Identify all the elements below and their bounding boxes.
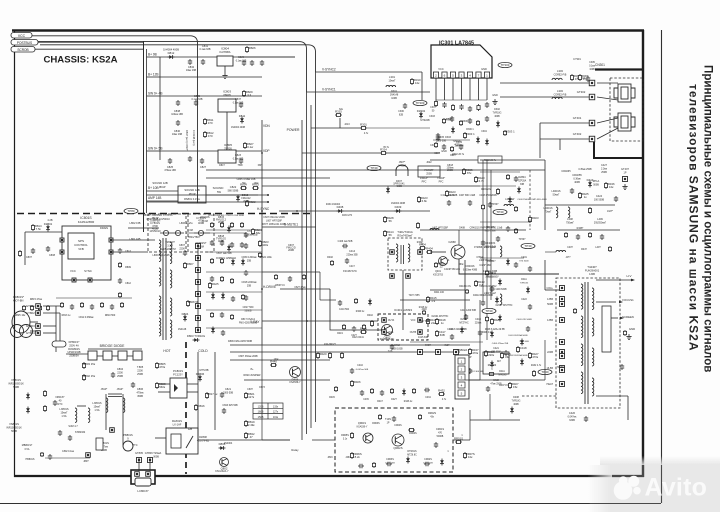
diode: [517, 187, 521, 194]
svg-text:LX801S: LX801S: [92, 401, 102, 405]
svg-text:C424P 580 2кB: C424P 580 2кB: [444, 269, 460, 271]
wire to GT302: [500, 96, 589, 98]
wire rail AMP14B: [147, 200, 179, 202]
resistor: [496, 188, 499, 195]
svg-text:R302 26.7к: R302 26.7к: [484, 159, 497, 162]
svg-text:S70M33К: S70M33К: [75, 431, 86, 434]
voltage table: [253, 403, 283, 419]
wire rail 3: [480, 185, 516, 187]
svg-text:1N4148: 1N4148: [178, 328, 187, 331]
box R302: [478, 156, 502, 163]
IC IC805: [218, 150, 236, 163]
svg-text:C404 470мк 25B: C404 470мк 25B: [492, 343, 509, 345]
connector pin: [109, 250, 113, 254]
svg-text:J819P JUMPER CY801S 4700 400B: J819P JUMPER CY801S 4700 400B: [208, 215, 244, 217]
diode: [526, 287, 530, 294]
svg-text:FO801S 1258/FA0: FO801S 1258/FA0: [216, 257, 236, 260]
svg-text:R30?: R30?: [450, 155, 456, 157]
wire bridge top bus: [88, 348, 142, 350]
svg-text:2.49к: 2.49к: [248, 423, 255, 427]
capacitor: [442, 144, 446, 150]
wire IC301 pin: [478, 78, 480, 100]
resistor R301: [360, 126, 367, 129]
svg-text:MTZ?HC: MTZ?HC: [459, 322, 469, 324]
svg-text:135B: 135B: [547, 298, 553, 301]
resistor R310: [410, 78, 413, 85]
svg-text:IN6?: IN6?: [445, 345, 451, 347]
svg-text:BRIDGE DIODE: BRIDGE DIODE: [100, 344, 125, 348]
svg-text:C412: C412: [394, 344, 400, 347]
wire: [43, 305, 60, 307]
screen arrow: [620, 317, 624, 320]
wire to GT402: [540, 138, 589, 140]
inductor: [592, 348, 594, 366]
capacitor: [244, 232, 248, 238]
svg-text:220мк 35B: 220мк 35B: [346, 254, 358, 256]
svg-text:0.1мк 63B: 0.1мк 63B: [200, 48, 211, 51]
svg-text:R809: R809: [125, 266, 131, 269]
svg-text:C?301: C?301: [573, 57, 581, 61]
capacitor: [131, 382, 135, 388]
svg-text:L802 F/B: L802 F/B: [130, 221, 141, 225]
schematic frame top border: [12, 29, 644, 31]
signal bus line 3: [310, 105, 312, 428]
connector pin: [196, 280, 201, 285]
diode: [460, 327, 464, 334]
svg-text:L303: L303: [557, 89, 563, 93]
relay contact: [186, 436, 193, 448]
svg-text:R445: R445: [329, 397, 335, 399]
resistor: [350, 432, 353, 439]
resistor: [372, 462, 375, 468]
resistor: [465, 289, 468, 294]
wire: [596, 301, 616, 303]
svg-text:IC805: IC805: [224, 143, 232, 147]
svg-text:IC803: IC803: [223, 90, 231, 94]
resistor R835: [462, 168, 465, 175]
capacitor: [403, 103, 407, 109]
connector pin: [454, 350, 459, 355]
svg-text:T40? 7455: T40? 7455: [409, 295, 421, 297]
transistor QR02S: [392, 434, 404, 446]
resistor R303 1: [503, 130, 506, 136]
wire: [559, 139, 561, 150]
svg-text:220B: 220B: [547, 351, 553, 354]
svg-text:KA7808A: KA7808A: [220, 50, 231, 54]
capacitor: [488, 202, 492, 208]
inductor: [408, 244, 410, 262]
inductor: [170, 270, 172, 288]
wire: [465, 379, 480, 381]
posistor box J022: [418, 166, 440, 177]
svg-text:CR4021S FMP-3FU 4700 1.5кB: CR4021S FMP-3FU 4700 1.5кB: [470, 228, 503, 230]
svg-text:3.3M: 3.3M: [198, 245, 204, 248]
svg-text:MT?23B: MT?23B: [199, 369, 208, 372]
resistor: [302, 274, 305, 280]
svg-text:C303: C303: [429, 115, 435, 118]
resistor C417: [435, 330, 438, 337]
resistor R817 1к: [205, 392, 208, 399]
transistor: [451, 245, 465, 259]
wire: [111, 239, 155, 241]
svg-text:T4440?: T4440?: [587, 265, 597, 269]
capacitor: [485, 116, 489, 122]
svg-text:К70 3000: К70 3000: [491, 351, 501, 353]
svg-text:C835 470мк 16B: C835 470мк 16B: [237, 178, 256, 181]
resistor R305: [570, 74, 573, 81]
capacitor: [176, 100, 180, 106]
CN502A box: [455, 355, 469, 399]
wire 9V rail: [160, 56, 295, 58]
svg-text:C435: C435: [363, 399, 369, 401]
IC301 pin 4: [459, 72, 464, 78]
svg-text:RR02S: RR02S: [428, 412, 436, 415]
inductor: [106, 398, 108, 412]
resistor: [210, 258, 213, 264]
ground: [626, 334, 631, 340]
svg-text:VCC: VCC: [18, 34, 26, 38]
wire 12V rail: [160, 76, 262, 78]
svg-text:C406 1мк 50B: C406 1мк 50B: [338, 241, 353, 243]
svg-text:J022: J022: [426, 161, 432, 164]
wire: [367, 127, 430, 129]
resistor R834: [240, 186, 247, 189]
inductor: [592, 318, 594, 336]
svg-text:B+ 12B: B+ 12B: [148, 73, 159, 77]
svg-text:OUTA: OUTA: [388, 319, 395, 322]
svg-text:130B: 130B: [589, 273, 595, 276]
IC301 pin 5: [467, 72, 472, 78]
resistor: [46, 305, 49, 311]
resistor R826: [245, 46, 248, 53]
resistor: [241, 294, 244, 300]
svg-text:1000 50B: 1000 50B: [223, 391, 234, 394]
svg-text:R816: R816: [198, 404, 205, 408]
diode: [368, 299, 372, 306]
svg-text:D42?: D42?: [391, 399, 397, 401]
svg-text:R421 R441: R421 R441: [352, 337, 364, 339]
svg-text:T401/T401A: T401/T401A: [397, 230, 413, 234]
wire: [105, 394, 107, 420]
resistor: [38, 305, 41, 311]
capacitor: [260, 60, 264, 66]
resistor: [434, 142, 437, 148]
IC IC803: [218, 99, 236, 112]
svg-text:R401 23к: R401 23к: [481, 189, 492, 191]
safety cap CY802S: [194, 230, 210, 235]
svg-text:L303: L303: [557, 69, 563, 73]
resistor: [451, 104, 454, 111]
svg-text:IC301 LA7845: IC301 LA7845: [439, 41, 474, 47]
IC RL801S: [166, 428, 198, 454]
focus arrow: [619, 301, 623, 304]
connector GT802: [36, 311, 41, 316]
svg-text:C415 63B: C415 63B: [418, 337, 429, 339]
svg-text:C823: C823: [235, 154, 242, 157]
resistor R413: [474, 280, 477, 287]
focus divider box: [602, 306, 611, 352]
resistor R411: [434, 262, 437, 268]
inductor: [556, 207, 558, 218]
wire pin rail: [436, 99, 487, 101]
svg-text:47мк 250B: 47мк 250B: [490, 383, 502, 385]
svg-text:R446 1к: R446 1к: [404, 401, 413, 403]
svg-text:D806 FMG-0265 500B: D806 FMG-0265 500B: [228, 340, 252, 343]
inductor: [552, 97, 562, 99]
inductor: [386, 85, 396, 87]
resistor: [514, 206, 517, 212]
wire: [122, 420, 124, 445]
capacitor: [201, 59, 205, 65]
svg-text:0.1мк 47B: 0.1мк 47B: [233, 158, 244, 160]
svg-text:J814*: J814*: [117, 387, 124, 391]
page margin bottom rule: [0, 503, 661, 505]
wire VDP: [302, 152, 440, 154]
yoke plug: [614, 113, 635, 131]
svg-text:C84? 1мк 50B: C84? 1мк 50B: [216, 252, 232, 255]
svg-text:D409: D409: [395, 205, 402, 209]
wire: [539, 123, 541, 158]
transistor: [363, 433, 373, 443]
svg-text:KSC5703: KSC5703: [433, 274, 444, 276]
signal bus line 1: [301, 120, 303, 440]
capacitor: [504, 350, 508, 356]
svg-text:400B: 400B: [513, 404, 519, 406]
diode D804: [183, 315, 187, 322]
wire under IC801S: [56, 297, 132, 299]
degauss coil plug: [11, 311, 33, 337]
svg-text:B+ 10B: B+ 10B: [148, 186, 159, 190]
wire: [458, 251, 459, 253]
wire: [187, 391, 198, 393]
connector GT803: [36, 324, 41, 329]
connector pin: [418, 350, 423, 355]
svg-text:0.047мк 50B: 0.047мк 50B: [356, 369, 369, 371]
svg-text:50мкГ: 50мкГ: [553, 193, 560, 196]
svg-text:TP303: TP303: [501, 63, 510, 67]
inductor: [504, 204, 514, 206]
wire AMP14B rail: [147, 201, 269, 203]
svg-text:CN301: CN301: [595, 63, 605, 67]
junction cluster: [261, 152, 308, 322]
diode: [490, 361, 494, 368]
svg-text:8+: 8+: [251, 367, 254, 371]
svg-text:D404: D404: [490, 272, 496, 275]
resistor: [477, 104, 480, 111]
capacitor: [468, 368, 472, 374]
svg-text:SCROB: SCROB: [17, 48, 28, 52]
svg-text:470к: 470к: [532, 355, 539, 359]
wire 9V to center: [244, 56, 295, 58]
wire: [127, 355, 133, 357]
svg-text:D402 RU2GA 500B: D402 RU2GA 500B: [509, 354, 529, 357]
diode D811: [240, 117, 244, 124]
line filter LX801S core: [108, 393, 122, 395]
svg-text:R807: R807: [187, 262, 194, 266]
connector pin: [196, 292, 201, 297]
resistor: [370, 320, 373, 327]
svg-text:127к: 127к: [248, 395, 255, 399]
wire: [596, 395, 628, 397]
inductor: [170, 298, 172, 316]
connector pin: [88, 278, 92, 282]
connector pin: [196, 256, 201, 261]
page margin vertical rule: [661, 30, 663, 503]
svg-text:450B: 450B: [137, 395, 143, 398]
resistor R805: [155, 362, 158, 369]
frame lines over watermark: [590, 465, 662, 504]
svg-text:C305: C305: [589, 61, 595, 64]
wire: [261, 345, 263, 440]
svg-text:R303 1: R303 1: [506, 130, 515, 134]
resistor: [328, 352, 331, 359]
wire: [453, 439, 470, 441]
svg-text:47: 47: [250, 435, 254, 439]
capacitor: [244, 270, 248, 276]
connector pin: [382, 330, 387, 335]
capacitor: [586, 76, 590, 82]
junction: [267, 201, 269, 203]
svg-text:PD801S*: PD801S*: [13, 295, 24, 299]
capacitor: [220, 312, 224, 318]
wire: [597, 128, 618, 139]
svg-text:KSC2873-HC: KSC2873-HC: [343, 271, 357, 273]
resistor: [220, 276, 223, 282]
wire: [206, 194, 258, 196]
capacitor: [464, 314, 468, 320]
svg-text:PAD?: PAD?: [425, 344, 432, 347]
capacitor: [342, 244, 348, 248]
resistor R437: [468, 348, 471, 355]
svg-text:COLL: COLL: [546, 287, 553, 290]
capacitor: [239, 102, 243, 108]
test point TP30: [367, 165, 381, 170]
svg-text:CR4020S: CR4020S: [485, 242, 496, 245]
svg-text:KSA539-Y: KSA539-Y: [289, 381, 301, 384]
schematic frame bottom border: [14, 475, 644, 477]
diode: [520, 339, 524, 346]
wire T801 primary: [128, 227, 159, 229]
wire CN502 right: [469, 379, 545, 381]
wire: [544, 160, 546, 230]
test point TP40: [538, 369, 552, 374]
svg-text:R404: R404: [426, 246, 433, 250]
capacitor: [210, 276, 214, 282]
wire SCROB rail: [35, 48, 143, 50]
svg-text:300B: 300B: [153, 455, 159, 458]
connector pin: [418, 250, 423, 255]
diode D808: [219, 446, 226, 450]
svg-text:R433 270: R433 270: [342, 215, 353, 217]
resistor: [354, 298, 357, 304]
wire: [43, 312, 60, 314]
diode: [495, 297, 499, 304]
svg-text:100 500B: 100 500B: [594, 198, 605, 201]
resistor R423: [417, 196, 420, 203]
svg-text:CR03S: CR03S: [386, 458, 394, 461]
capacitor: [244, 295, 248, 301]
wire: [155, 437, 166, 439]
svg-text:N801S*: N801S*: [56, 395, 65, 399]
connector pin: [60, 250, 64, 254]
svg-text:FUH29A001: FUH29A001: [585, 268, 600, 272]
svg-text:L409: L409: [597, 218, 603, 221]
wire L407 row: [420, 229, 526, 231]
wire fuse to bridge: [66, 353, 88, 355]
inductor: [88, 408, 90, 422]
bridge diode block: [88, 351, 142, 360]
svg-text:7.5к: 7.5к: [36, 227, 42, 231]
svg-text:телевизоров SAMSUNG на шасси K: телевизоров SAMSUNG на шасси KS2A: [687, 84, 701, 351]
svg-text:CR402S: CR402S: [465, 265, 474, 268]
svg-text:J801P: J801P: [158, 186, 165, 189]
svg-text:RR05S: RR05S: [341, 434, 349, 437]
wire rail B+ 9B: [147, 56, 161, 58]
capacitor: [288, 276, 292, 282]
svg-text:0.35мк 250B: 0.35мк 250B: [578, 169, 592, 171]
resistor R404: [426, 250, 433, 253]
svg-text:C418: C418: [520, 346, 527, 350]
svg-text:470: 470: [208, 121, 213, 125]
resistor: [416, 222, 419, 229]
svg-text:H.V: H.V: [626, 274, 631, 278]
inductor: [500, 294, 502, 305]
capacitor: [468, 106, 472, 112]
capacitor: [110, 304, 114, 310]
resistor R403: [528, 216, 531, 223]
resistor: [450, 146, 453, 152]
test point TP309: [413, 100, 427, 105]
resistor: [118, 292, 121, 298]
svg-text:56: 56: [389, 219, 393, 223]
capacitor: [46, 246, 50, 252]
svg-text:C416: C416: [357, 364, 363, 367]
svg-text:1N4148 (нет): 1N4148 (нет): [192, 130, 196, 146]
svg-text:GT402: GT402: [573, 132, 582, 136]
resistor RR01S: [455, 440, 462, 443]
svg-text:DRAIN: DRAIN: [100, 226, 108, 230]
diode: [440, 459, 444, 466]
svg-text:0.1мк 63B: 0.1мк 63B: [233, 102, 244, 104]
wire: [97, 355, 103, 357]
connector pin: [148, 458, 153, 463]
connector pin: [72, 278, 76, 282]
yoke plug: [614, 84, 635, 102]
jumper dashed box CY802S: [188, 214, 214, 252]
svg-text:TP309: TP309: [416, 101, 425, 105]
IC301 pin 7: [484, 72, 489, 78]
resistor R829: [242, 90, 245, 97]
capacitor: [250, 60, 254, 66]
svg-text:33B: 33B: [520, 184, 525, 186]
capacitor: [390, 344, 394, 350]
resistor: [30, 305, 33, 311]
capacitor: [168, 158, 172, 164]
capacitor: [380, 390, 384, 396]
diode DZ302: [419, 112, 423, 119]
inductor: [159, 318, 161, 336]
yoke dashed box: [610, 78, 643, 141]
capacitor: [222, 408, 226, 414]
capacitor: [200, 158, 204, 164]
connector pin: [196, 304, 201, 309]
wire VDN: [311, 127, 366, 129]
svg-text:431 (79-92): 431 (79-92): [197, 439, 210, 442]
svg-text:D811: D811: [239, 114, 246, 118]
svg-text:FMG-0265 5000B: FMG-0265 5000B: [239, 322, 258, 324]
svg-text:EW-DRIV?: EW-DRIV?: [324, 343, 336, 346]
svg-text:TVR10G: TVR10G: [493, 112, 502, 114]
